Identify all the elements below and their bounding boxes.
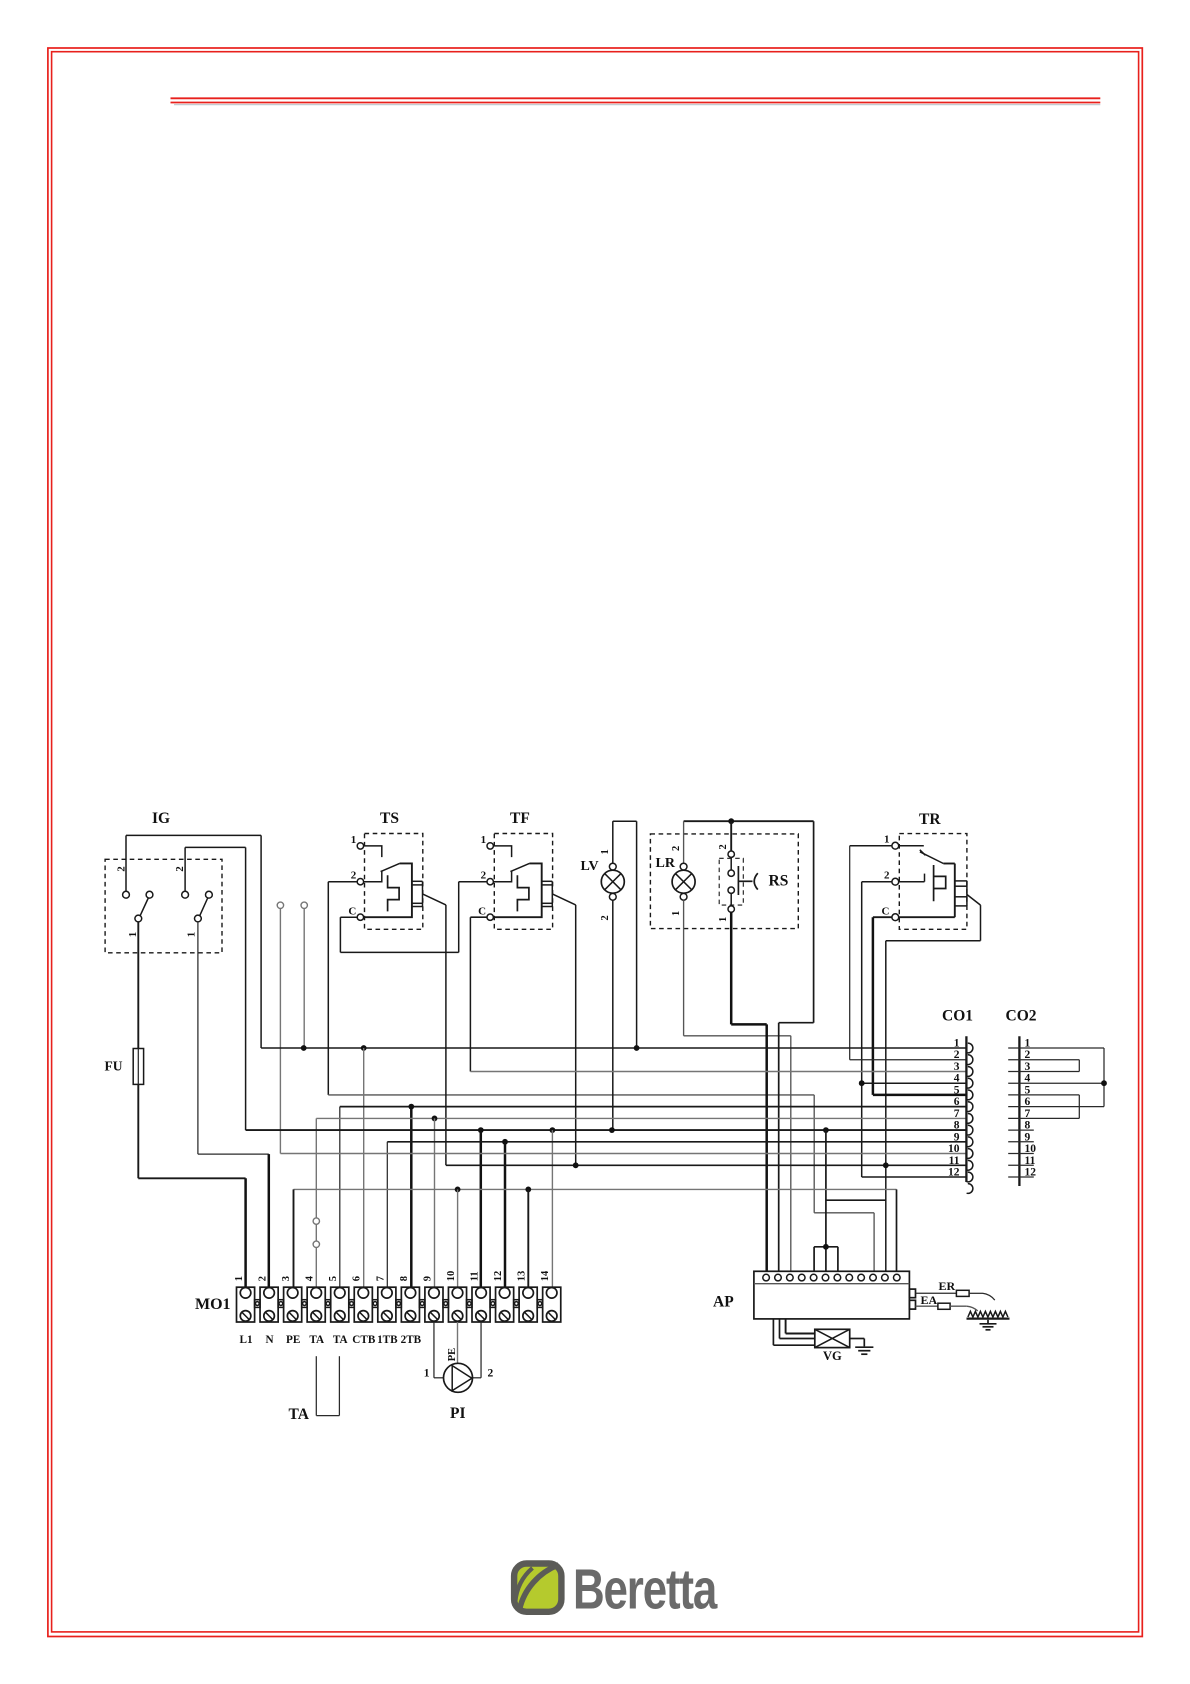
svg-text:9: 9: [954, 1131, 960, 1143]
svg-text:10: 10: [948, 1143, 960, 1155]
svg-text:1: 1: [351, 834, 357, 846]
svg-text:TA: TA: [333, 1334, 348, 1346]
svg-text:5: 5: [954, 1084, 960, 1096]
svg-text:5: 5: [328, 1276, 339, 1281]
svg-text:PE: PE: [286, 1334, 300, 1346]
svg-text:2: 2: [1025, 1049, 1031, 1061]
svg-text:1: 1: [1025, 1038, 1031, 1050]
svg-text:FU: FU: [105, 1059, 123, 1074]
svg-text:TA: TA: [309, 1334, 324, 1346]
svg-text:MO1: MO1: [195, 1296, 231, 1313]
svg-text:11: 11: [469, 1271, 480, 1281]
svg-text:PE: PE: [447, 1348, 458, 1361]
svg-text:2: 2: [115, 866, 127, 872]
svg-text:2: 2: [954, 1049, 960, 1061]
svg-text:9: 9: [422, 1276, 433, 1281]
svg-text:14: 14: [540, 1270, 551, 1281]
svg-text:1: 1: [186, 932, 198, 938]
svg-text:6: 6: [352, 1276, 363, 1281]
svg-text:IG: IG: [152, 810, 170, 827]
svg-text:6: 6: [1025, 1096, 1031, 1108]
svg-text:2: 2: [481, 870, 487, 882]
svg-text:C: C: [348, 905, 356, 917]
svg-text:2: 2: [488, 1368, 494, 1380]
svg-text:8: 8: [1025, 1120, 1031, 1132]
svg-text:1: 1: [884, 834, 890, 846]
svg-text:1: 1: [954, 1038, 960, 1050]
svg-text:1: 1: [481, 834, 487, 846]
svg-text:3: 3: [281, 1276, 292, 1281]
svg-text:2: 2: [351, 870, 357, 882]
svg-text:8: 8: [399, 1276, 410, 1281]
svg-text:Beretta: Beretta: [573, 1557, 718, 1621]
svg-text:10: 10: [446, 1271, 457, 1282]
svg-text:9: 9: [1025, 1131, 1031, 1143]
svg-text:5: 5: [1025, 1084, 1031, 1096]
svg-text:TR: TR: [919, 811, 941, 828]
svg-text:3: 3: [954, 1061, 960, 1073]
svg-text:2: 2: [718, 844, 729, 849]
svg-text:AP: AP: [713, 1294, 734, 1311]
svg-text:LV: LV: [581, 859, 599, 874]
svg-text:2: 2: [600, 915, 611, 920]
svg-text:1TB: 1TB: [377, 1334, 398, 1346]
svg-text:13: 13: [517, 1271, 528, 1282]
svg-text:11: 11: [949, 1155, 960, 1167]
svg-text:VG: VG: [823, 1349, 842, 1363]
svg-text:11: 11: [1025, 1155, 1036, 1167]
svg-text:N: N: [266, 1334, 274, 1346]
svg-text:RS: RS: [769, 873, 789, 890]
svg-text:CO2: CO2: [1006, 1008, 1037, 1025]
svg-text:TA: TA: [289, 1406, 310, 1423]
svg-text:4: 4: [305, 1275, 316, 1281]
svg-text:2TB: 2TB: [401, 1334, 422, 1346]
svg-text:1: 1: [424, 1368, 430, 1380]
svg-text:10: 10: [1025, 1143, 1037, 1155]
svg-text:2: 2: [174, 866, 186, 872]
svg-text:1: 1: [718, 917, 729, 922]
svg-text:TS: TS: [380, 810, 399, 827]
svg-text:1: 1: [600, 849, 611, 854]
svg-text:2: 2: [258, 1276, 269, 1281]
svg-text:2: 2: [884, 870, 890, 882]
svg-text:CTB: CTB: [352, 1334, 376, 1346]
svg-text:1: 1: [234, 1276, 245, 1281]
svg-text:6: 6: [954, 1096, 960, 1108]
svg-text:7: 7: [375, 1276, 386, 1281]
svg-text:12: 12: [1025, 1167, 1037, 1179]
svg-text:TF: TF: [510, 810, 530, 827]
svg-text:12: 12: [493, 1271, 504, 1282]
svg-text:CO1: CO1: [942, 1008, 973, 1025]
svg-text:12: 12: [948, 1167, 960, 1179]
svg-text:C: C: [478, 905, 486, 917]
svg-text:3: 3: [1025, 1061, 1031, 1073]
svg-text:2: 2: [671, 846, 682, 851]
svg-text:C: C: [882, 905, 890, 917]
svg-text:7: 7: [1025, 1108, 1031, 1120]
svg-text:1: 1: [127, 932, 139, 938]
svg-text:4: 4: [954, 1073, 960, 1085]
svg-text:1: 1: [671, 911, 682, 916]
svg-text:7: 7: [954, 1108, 960, 1120]
svg-text:8: 8: [954, 1120, 960, 1132]
svg-text:PI: PI: [450, 1405, 466, 1422]
svg-text:L1: L1: [240, 1334, 253, 1346]
svg-text:ER: ER: [939, 1279, 956, 1293]
svg-text:4: 4: [1025, 1073, 1031, 1085]
svg-text:LR: LR: [656, 856, 676, 871]
svg-text:EA: EA: [921, 1293, 938, 1307]
